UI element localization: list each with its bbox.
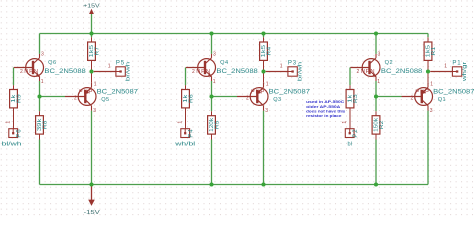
- svg-text:NPN: NPN: [361, 69, 376, 75]
- transistor Q6 NPN (BC_2N5088): [14, 54, 44, 81]
- svg-text:BC_2N5087: BC_2N5087: [269, 89, 311, 95]
- svg-text:1: 1: [342, 121, 348, 124]
- wire Q2 emitter to node: [375, 81, 377, 97]
- svg-text:1: 1: [94, 82, 97, 88]
- svg-text:2: 2: [192, 69, 195, 75]
- svg-text:NPN: NPN: [196, 69, 211, 75]
- svg-text:BC_2N5088: BC_2N5088: [216, 69, 258, 75]
- svg-text:1: 1: [178, 121, 184, 124]
- wire R2 to -15V rail: [375, 134, 377, 184]
- svg-text:P5: P5: [116, 60, 125, 66]
- wire Q4 collector to +15V rail: [211, 34, 213, 54]
- power -15V symbol: [84, 185, 100, 216]
- svg-text:1: 1: [280, 63, 283, 69]
- svg-text:BC_2N5087: BC_2N5087: [433, 89, 474, 95]
- svg-text:1: 1: [108, 63, 111, 69]
- svg-text:BC_2N5088: BC_2N5088: [381, 69, 423, 75]
- wire node to R2: [375, 97, 377, 116]
- wire Q2 collector to +15V rail: [375, 34, 377, 54]
- svg-text:-15V: -15V: [84, 210, 100, 216]
- wire R8 to -15V rail: [39, 134, 41, 184]
- wire node to Q1 base: [376, 96, 402, 98]
- svg-text:1: 1: [213, 79, 216, 85]
- wire node to R5: [211, 97, 213, 116]
- transistor Q2 NPN (BC_2N5088): [350, 54, 380, 81]
- svg-text:R2: R2: [379, 121, 385, 130]
- svg-text:+15V: +15V: [83, 3, 100, 9]
- junction bottom rail node stage 1: [89, 182, 93, 186]
- connector P1 (wh/gr): [430, 67, 462, 76]
- junction Q4 stage top rail nodes: [209, 31, 265, 35]
- svg-text:wh/bl: wh/bl: [174, 141, 195, 147]
- transistor Q5 PNP (BC_2N5087): [65, 82, 96, 110]
- svg-text:P3: P3: [288, 60, 297, 66]
- svg-text:R4: R4: [266, 47, 272, 56]
- wire Q3 collector to -15V rail: [263, 111, 265, 185]
- connector P2 (bl): [345, 129, 354, 138]
- power +15V symbol: [83, 3, 100, 33]
- svg-text:Q4: Q4: [220, 60, 228, 66]
- junction bottom rail node stage 2: [209, 182, 265, 186]
- svg-text:wh/gr: wh/gr: [462, 62, 468, 83]
- svg-text:R8: R8: [42, 121, 48, 130]
- note about R3: [306, 99, 345, 118]
- Q5 base bar and emitter arrow: [85, 87, 92, 103]
- Q1 base bar and emitter arrow: [421, 87, 428, 103]
- wire Q6 emitter to node: [39, 81, 41, 97]
- svg-text:R6: R6: [188, 94, 194, 103]
- junction R7 / P5 node: [89, 69, 93, 73]
- junction bottom rail node stage 3: [374, 182, 378, 186]
- wire Q5 collector to -15V rail: [91, 111, 93, 185]
- wire Q6 collector to +15V rail: [39, 34, 41, 54]
- svg-text:BC_2N5088: BC_2N5088: [44, 69, 86, 75]
- svg-text:Q2: Q2: [385, 60, 393, 66]
- svg-text:1: 1: [6, 121, 12, 124]
- svg-text:3: 3: [41, 52, 44, 58]
- connector P6 (bl/wh): [9, 129, 18, 138]
- svg-text:1: 1: [444, 63, 447, 69]
- resistor R9 (1k): [10, 90, 23, 108]
- svg-text:Q6: Q6: [48, 60, 56, 66]
- junction Q6 emitter node: [37, 94, 41, 98]
- Q3 base bar and emitter arrow: [257, 87, 264, 103]
- wire R6 to P4: [185, 108, 187, 129]
- transistor Q1 PNP (BC_2N5087): [402, 82, 433, 110]
- svg-text:Q1: Q1: [438, 97, 446, 103]
- connector P5 (br/wh): [94, 67, 126, 76]
- junction Q2 emitter node: [374, 94, 378, 98]
- svg-text:2: 2: [20, 69, 23, 75]
- svg-text:R5: R5: [214, 120, 220, 129]
- svg-text:BC_2N5087: BC_2N5087: [97, 89, 139, 95]
- wire +15V rail to R4: [263, 34, 265, 43]
- svg-text:3: 3: [93, 108, 96, 114]
- resistor R8 (39k): [36, 116, 49, 134]
- svg-text:1: 1: [377, 79, 380, 85]
- svg-text:P1: P1: [452, 60, 461, 66]
- svg-text:br/wh: br/wh: [126, 62, 132, 81]
- wire Q1 collector to -15V rail: [427, 111, 429, 185]
- svg-text:3: 3: [213, 52, 216, 58]
- junction R4 / P3 node: [261, 69, 265, 73]
- resistor R4 (1k5): [260, 42, 273, 60]
- svg-text:3: 3: [430, 108, 433, 114]
- svg-text:R3: R3: [353, 94, 359, 103]
- wire node to Q5 base: [40, 96, 66, 98]
- resistor R6 (1k): [182, 90, 195, 108]
- junction Q4 emitter node: [209, 94, 213, 98]
- wire +15V top rail: [40, 33, 429, 35]
- wire Q4 base to R6: [185, 68, 187, 90]
- svg-text:2: 2: [246, 96, 249, 102]
- svg-text:1: 1: [266, 82, 269, 88]
- wire +15V rail to R1: [427, 34, 429, 43]
- svg-text:bl: bl: [348, 141, 352, 147]
- wire R3 to P2: [349, 108, 351, 129]
- svg-text:resistor in place: resistor in place: [306, 113, 342, 118]
- wire R7 to Q5 emitter node: [91, 60, 93, 82]
- svg-text:bl/wh: bl/wh: [2, 141, 22, 147]
- svg-text:3: 3: [265, 108, 268, 114]
- transistor Q4 NPN (BC_2N5088): [186, 54, 216, 81]
- wire Q4 emitter to node: [211, 81, 213, 97]
- svg-text:2: 2: [74, 96, 77, 102]
- connector P3 (br/wh): [266, 67, 298, 76]
- wire Q6 base to R9: [13, 68, 15, 90]
- resistor R2 (150k): [372, 116, 385, 134]
- svg-text:P4: P4: [189, 129, 195, 138]
- svg-text:NPN: NPN: [24, 69, 39, 75]
- junction R1 / P1 node: [426, 69, 430, 73]
- resistor R5 (120k): [208, 116, 221, 134]
- wire R5 to -15V rail: [211, 134, 213, 184]
- svg-text:R1: R1: [431, 47, 437, 56]
- svg-text:2: 2: [357, 69, 360, 75]
- svg-text:br/wh: br/wh: [298, 62, 304, 81]
- wire R1 to Q1 emitter node: [427, 60, 429, 82]
- resistor R3 (1k): [346, 90, 359, 108]
- junction Q6 stage top rail nodes: [89, 31, 93, 35]
- resistor R1 (1k5): [424, 42, 437, 60]
- svg-text:Q5: Q5: [101, 97, 109, 103]
- wire Q2 base to R3: [349, 68, 351, 90]
- svg-text:1: 1: [41, 79, 44, 85]
- wire -15V bottom rail: [40, 184, 429, 186]
- wire R4 to Q3 emitter node: [263, 60, 265, 82]
- wire node to R8: [39, 97, 41, 116]
- resistor R7 (1k5): [88, 42, 101, 60]
- svg-text:Q3: Q3: [273, 97, 281, 103]
- svg-text:3: 3: [378, 52, 381, 58]
- wire R9 to P6: [13, 108, 15, 129]
- svg-text:1: 1: [430, 82, 433, 88]
- svg-text:P6: P6: [17, 129, 23, 138]
- svg-text:R9: R9: [16, 94, 22, 103]
- wire node to Q3 base: [212, 96, 238, 98]
- svg-text:2: 2: [411, 96, 414, 102]
- svg-text:R7: R7: [94, 47, 100, 56]
- connector P4 (wh/bl): [181, 129, 190, 138]
- transistor Q3 PNP (BC_2N5087): [237, 82, 268, 110]
- junction Q2 stage top rail nodes: [374, 31, 378, 35]
- svg-text:P2: P2: [353, 129, 359, 138]
- wire +15V rail to R7: [91, 34, 93, 43]
